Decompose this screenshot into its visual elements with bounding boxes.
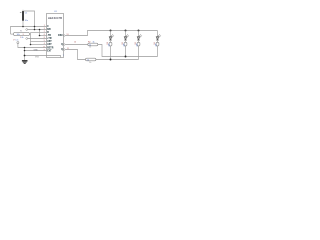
GND bus vertical x24 (24, 48, 26, 61)
wire row y44 (31, 44, 47, 46)
svg-text:1k: 1k (89, 46, 91, 48)
wire resistor R6 to bottom rail (138, 46, 140, 60)
svg-text:220: 220 (137, 44, 139, 47)
wire Qbar pin down (66, 50, 86, 60)
wire row y41 (31, 41, 47, 43)
wire branch x157 top (157, 31, 159, 37)
svg-text:R/C: R/C (47, 29, 51, 31)
resistor R5 (124, 42, 127, 46)
svg-text:OSC: OSC (58, 35, 63, 37)
junction dot bus row50.5 (24, 50, 26, 52)
svg-text:220: 220 (124, 44, 126, 47)
wire pin1 row y26 (11, 27, 47, 35)
LED D2 (124, 34, 129, 40)
terminal circle row29 (26, 29, 28, 31)
pin bubble Q (64, 44, 66, 46)
wire pin2 row y32 (31, 32, 47, 34)
svg-text:10: 10 (74, 42, 76, 44)
wire pin3 row y29 (28, 29, 47, 31)
vertical wire x39 rows 29-41 (39, 30, 41, 36)
resistor R4 (109, 42, 112, 46)
resistor R7 (156, 42, 159, 46)
IC U1 HEF4047B (47, 11, 65, 57)
pin bubble OSC (64, 35, 66, 37)
wire LED D1 to resistor R4 (110, 40, 112, 42)
LED D1 (109, 34, 114, 40)
wire resistor R5 to bottom rail (125, 46, 127, 57)
wire Q pin to R2 (66, 44, 88, 46)
LED D4 (156, 34, 161, 40)
VCC port circle (17, 42, 19, 44)
wire LED D2 to resistor R5 (125, 40, 127, 42)
IC right pin OSC wire to top bus (66, 31, 158, 36)
junction dot x34 row29 (34, 29, 36, 31)
IC left pin name labels (47, 26, 54, 53)
resistor R3 body (86, 58, 96, 61)
svg-text:0k: 0k (22, 37, 24, 39)
vertical wire x30 rows 32-44 (30, 33, 32, 45)
svg-text:AST: AST (47, 43, 52, 46)
svg-text:HEF4047B: HEF4047B (48, 16, 62, 20)
svg-text:AST: AST (47, 40, 52, 43)
junction dot bus row55.5 (24, 55, 26, 57)
wire R3 to bottom bus (96, 59, 139, 61)
junction dot cap bottom row26 (22, 26, 24, 28)
junction dot branch2 bottom (125, 56, 127, 58)
junction dot x34 row26 (34, 26, 36, 28)
pin bubble Qbar (64, 49, 66, 51)
wire LED D3 to resistor R6 (138, 40, 140, 42)
IC right pin name labels (58, 35, 63, 51)
ground symbol (22, 61, 28, 64)
svg-text:1k: 1k (89, 62, 91, 64)
svg-text:10u: 10u (25, 20, 28, 22)
resistor R2 body (88, 43, 98, 46)
wire row y55.5 to VSS (25, 56, 61, 58)
capacitor C1 lead to row26 (22, 22, 24, 27)
terminal circle row38 (26, 38, 28, 40)
junction dot x39 row35 (39, 35, 41, 37)
svg-text:-TR: -TR (47, 35, 51, 37)
svg-text:RETR: RETR (47, 48, 54, 50)
IC right pin numbers (67, 34, 76, 50)
wire row y38 (28, 38, 47, 40)
svg-text:CC: CC (15, 39, 19, 41)
wire resistor R7 to bottom rail (157, 46, 159, 57)
wire branch x110 top (110, 31, 112, 37)
svg-text:10k: 10k (17, 34, 20, 36)
svg-text:Q: Q (61, 49, 63, 51)
wire row y50.5 (25, 50, 47, 52)
svg-text:220: 220 (109, 44, 111, 47)
svg-text:1k: 1k (93, 42, 95, 44)
svg-text:GND: GND (34, 49, 39, 51)
wire row y35 (40, 35, 47, 37)
junction dot x39 row29 (39, 29, 41, 31)
wire branch x138 top (138, 31, 140, 37)
top bus junction dots (110, 30, 112, 32)
wire R2 to lower bus (98, 45, 158, 57)
IC left pin numbers (43, 25, 45, 51)
resistor R1 body (14, 32, 30, 35)
junction dot x30 row44 (30, 44, 32, 46)
junction dot branch1 bottom (110, 59, 112, 61)
svg-text:R2: R2 (88, 42, 90, 44)
svg-text:Q: Q (61, 44, 63, 46)
wire resistor R4 to bottom rail (110, 46, 112, 60)
svg-text:R1: R1 (20, 31, 22, 33)
capacitor C1 body (22, 10, 24, 22)
wire LED D4 to resistor R7 (157, 40, 159, 42)
wire row y47.5 from VCC (18, 44, 47, 48)
wire branch x125 top (125, 31, 127, 37)
resistor R6 (137, 42, 140, 46)
svg-text:EXT: EXT (47, 51, 52, 53)
vertical wire x34 from cap top (24, 11, 35, 30)
svg-text:+TR: +TR (47, 38, 52, 40)
svg-text:220: 220 (156, 44, 158, 47)
junction dot bus row47.5 (24, 47, 26, 49)
LED D3 (137, 34, 142, 40)
